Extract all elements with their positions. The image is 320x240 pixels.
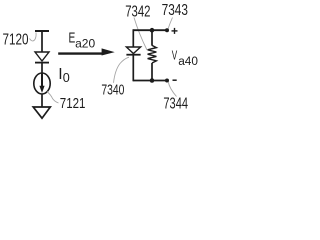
diode 7340 triangle [126,47,140,54]
svg-text:7120: 7120 [3,31,29,48]
arrow Ea20 shaft [58,52,103,54]
svg-text:a40: a40 [178,54,198,68]
svg-text:7343: 7343 [162,0,189,18]
ground 7121 open triangle [33,107,50,118]
svg-text:7342: 7342 [125,3,150,20]
wire resistor to bottom [151,63,153,81]
top terminal bar (anode of 7120) [35,30,49,32]
wire top to diode 7340 [132,29,134,47]
junction dot bottom [150,78,155,83]
wire top to resistor [151,30,153,45]
wire source to ground [41,94,43,107]
svg-text:7340: 7340 [101,81,124,98]
svg-text:7344: 7344 [163,95,188,112]
junction dot top [150,28,155,33]
arrow Ea20 head [102,48,115,55]
current source arrowhead [39,86,44,93]
plus sign [172,30,178,32]
svg-text:0: 0 [63,71,70,85]
wire diode to current source [41,64,43,75]
leader for 7340 [114,57,130,83]
wire diode to bottom [132,56,134,82]
terminal dot 7344 [165,79,169,83]
svg-text:7121: 7121 [60,94,86,111]
current source arrow shaft [41,74,43,87]
diode 7340 cathode bar [126,54,140,56]
diode 7120 cathode bar [35,62,49,64]
minus sign [173,79,177,81]
wire terminal to diode [41,31,43,52]
diode 7120 triangle [35,52,49,61]
current source I0 circle [34,73,50,94]
leader for 7121 [47,92,59,104]
top wire [133,29,167,31]
svg-text:a20: a20 [75,37,95,51]
leader for 7342 [134,18,147,51]
bottom wire [133,80,167,82]
resistor 7342 zigzag [148,45,157,63]
svg-text:V: V [172,49,178,63]
leader for 7344 [168,82,176,97]
terminal dot 7343 [165,28,169,32]
leader for 7120 [30,33,37,41]
leader for 7343 [168,18,173,30]
